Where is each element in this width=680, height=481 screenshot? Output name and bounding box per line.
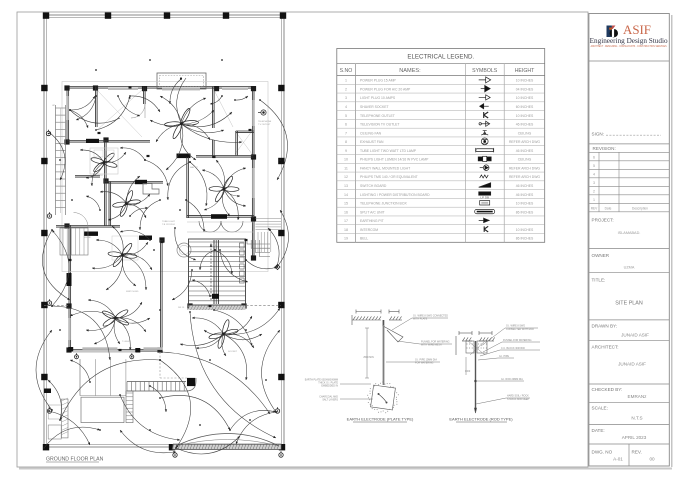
svg-text:PHILIPS LIGHT LUMEN 14/16 W PV: PHILIPS LIGHT LUMEN 14/16 W PVC LAMP bbox=[360, 158, 429, 162]
node bbox=[249, 419, 251, 421]
svg-text:ELECTRICAL LEGEND.: ELECTRICAL LEGEND. bbox=[407, 54, 474, 61]
interior wall v6 bbox=[104, 141, 106, 227]
legend table frame bbox=[337, 49, 545, 243]
svg-text:SHAVER SOCKET: SHAVER SOCKET bbox=[360, 105, 389, 109]
switch bbox=[147, 155, 150, 157]
node bbox=[269, 229, 271, 231]
interior wall v9 right-mid bbox=[186, 157, 188, 218]
svg-text:SOCKET: SOCKET bbox=[228, 351, 238, 353]
svg-text:Engineering Design Studio: Engineering Design Studio bbox=[590, 36, 668, 45]
svg-text:LIGHT PLUG 10 AMPS: LIGHT PLUG 10 AMPS bbox=[360, 96, 396, 100]
wire bbox=[220, 250, 248, 282]
wire bbox=[36, 330, 52, 410]
wire bbox=[177, 78, 186, 124]
terrace steps top-right bbox=[247, 240, 270, 244]
svg-text:86 INCHES: 86 INCHES bbox=[516, 210, 534, 214]
ceiling fan F2 bbox=[85, 144, 122, 181]
wire bbox=[160, 96, 182, 124]
hatched pillar strip bbox=[62, 399, 69, 438]
revision table bbox=[589, 160, 669, 162]
wire bbox=[86, 318, 116, 330]
svg-text:10 INCHES: 10 INCHES bbox=[516, 96, 534, 100]
svg-text:G.I. PIPE: G.I. PIPE bbox=[499, 355, 509, 358]
wire bbox=[176, 436, 240, 454]
ceiling fan F6 bbox=[206, 171, 243, 208]
wire bbox=[182, 124, 211, 140]
node bbox=[199, 424, 201, 426]
wire bbox=[200, 250, 215, 270]
wire bbox=[104, 152, 126, 163]
wire bbox=[235, 96, 248, 100]
legend header row bbox=[337, 75, 545, 77]
svg-text:SWITCH BOARD: SWITCH BOARD bbox=[360, 184, 387, 188]
house left wall upper bbox=[66, 87, 68, 144]
external stair left bbox=[55, 105, 57, 215]
wire bbox=[162, 352, 270, 414]
wire bbox=[224, 334, 255, 348]
earthing detail rod type bbox=[456, 331, 495, 413]
wire bbox=[116, 318, 151, 323]
wire bbox=[70, 96, 95, 110]
svg-text:ASIF: ASIF bbox=[623, 22, 651, 37]
wire bbox=[60, 360, 160, 420]
node bbox=[153, 249, 155, 251]
svg-text:9: 9 bbox=[345, 149, 347, 153]
svg-text:EMRANz: EMRANz bbox=[628, 394, 648, 399]
wire bbox=[88, 300, 116, 318]
node bbox=[265, 379, 267, 381]
wire bbox=[196, 334, 224, 348]
wire bbox=[204, 330, 224, 335]
wire bbox=[236, 412, 276, 444]
wire bbox=[260, 100, 288, 180]
svg-text:46 INCHES: 46 INCHES bbox=[516, 184, 534, 188]
svg-text:TELEPHONE JUNCTION BOX: TELEPHONE JUNCTION BOX bbox=[360, 202, 407, 206]
wire bbox=[262, 330, 280, 412]
svg-text:REFER ARCH DWG: REFER ARCH DWG bbox=[509, 166, 540, 170]
bottom-left column bbox=[44, 389, 51, 394]
svg-text:00: 00 bbox=[649, 457, 655, 462]
svg-text:T.LIGHT: T.LIGHT bbox=[122, 341, 131, 343]
stair arrow bbox=[210, 245, 212, 300]
garden light bbox=[130, 355, 134, 359]
svg-text:FOR WATERING: FOR WATERING bbox=[415, 362, 433, 365]
svg-text:SIGN:: SIGN: bbox=[592, 131, 605, 136]
wire bbox=[94, 318, 116, 344]
interior wall h2a closet bbox=[236, 130, 254, 132]
svg-text:EMBEDDED IN: EMBEDDED IN bbox=[321, 385, 338, 388]
wire bbox=[70, 110, 120, 123]
roof overhang outline bbox=[62, 82, 268, 272]
wire bbox=[150, 120, 182, 125]
wire bbox=[202, 170, 224, 189]
svg-text:3: 3 bbox=[345, 96, 347, 100]
node bbox=[179, 209, 181, 211]
vertical ladder stair bbox=[126, 391, 133, 423]
ceiling fan F3 bbox=[111, 188, 142, 218]
wire bbox=[277, 210, 289, 267]
door D3 bbox=[135, 180, 147, 184]
svg-text:12: 12 bbox=[344, 175, 348, 179]
wire bbox=[118, 96, 140, 116]
wire bbox=[222, 189, 230, 216]
wire bbox=[122, 255, 136, 286]
ceiling fan F1 bbox=[162, 104, 201, 143]
garden light bbox=[279, 453, 283, 457]
svg-text:4: 4 bbox=[345, 105, 347, 109]
svg-text:OWNER: OWNER bbox=[592, 253, 610, 258]
porch bbox=[157, 73, 206, 89]
wire bbox=[222, 334, 226, 356]
wire bbox=[182, 110, 215, 124]
wire bbox=[70, 360, 90, 382]
wire bbox=[114, 318, 120, 344]
svg-text:04 INCHES: 04 INCHES bbox=[516, 87, 534, 91]
wall columns house bbox=[64, 85, 69, 90]
interior wall h1 bbox=[67, 140, 150, 142]
svg-text:CEILING FAN: CEILING FAN bbox=[360, 131, 382, 135]
wire bbox=[224, 316, 253, 334]
svg-text:6: 6 bbox=[345, 123, 347, 127]
svg-text:N.T.S: N.T.S bbox=[631, 416, 642, 421]
drive curve bbox=[186, 378, 196, 391]
wire bbox=[130, 208, 148, 216]
wire bbox=[92, 255, 123, 268]
wire bbox=[268, 228, 279, 266]
wire bbox=[50, 133, 65, 180]
interior wall v2 bbox=[143, 87, 145, 105]
svg-text:19: 19 bbox=[344, 237, 348, 241]
wire bbox=[192, 280, 210, 296]
gate arc bbox=[176, 434, 279, 447]
svg-text:13: 13 bbox=[344, 184, 348, 188]
drive col bbox=[187, 378, 195, 386]
node bbox=[71, 199, 73, 201]
wire bbox=[100, 192, 127, 204]
svg-text:EARTH ELECTRODE (ROD TYPE): EARTH ELECTRODE (ROD TYPE) bbox=[449, 417, 513, 422]
svg-text:ARCHITECT . DESIGNING . CONSUL: ARCHITECT . DESIGNING . CONSULTANTS . CO… bbox=[591, 45, 667, 48]
svg-text:UZMA: UZMA bbox=[624, 266, 635, 270]
svg-text:S.NO: S.NO bbox=[340, 68, 353, 74]
veranda plank lines bbox=[79, 359, 81, 396]
interior wall v4 bbox=[235, 131, 237, 156]
gate hatched wall bbox=[172, 444, 281, 449]
svg-text:46 INCHES: 46 INCHES bbox=[516, 193, 534, 197]
svg-text:DATE:: DATE: bbox=[592, 428, 605, 433]
svg-text:SALT LAYERS: SALT LAYERS bbox=[322, 399, 338, 402]
svg-text:10 INCHES: 10 INCHES bbox=[516, 114, 534, 118]
bottom wall shadow bbox=[73, 351, 135, 353]
wire bbox=[186, 200, 204, 232]
svg-text:TELEPHONE: TELEPHONE bbox=[258, 121, 272, 123]
svg-text:86 INCHES: 86 INCHES bbox=[516, 237, 534, 241]
wire bbox=[172, 270, 192, 300]
svg-text:46 INCHES: 46 INCHES bbox=[516, 149, 534, 153]
svg-text:2: 2 bbox=[593, 190, 595, 194]
wire bbox=[190, 312, 276, 438]
dashed court continuation bbox=[159, 352, 161, 378]
interior wall h5 bbox=[56, 225, 120, 227]
ceiling fan F4 bbox=[104, 236, 141, 273]
svg-text:GROUND FLOOR PLAN: GROUND FLOOR PLAN bbox=[46, 457, 104, 463]
wire bbox=[190, 162, 207, 206]
wire bbox=[204, 189, 224, 210]
legend rows bbox=[337, 83, 545, 85]
main staircase bbox=[189, 239, 246, 305]
svg-text:1: 1 bbox=[593, 198, 595, 202]
svg-text:4: 4 bbox=[593, 173, 595, 177]
svg-text:T.V OUTLET: T.V OUTLET bbox=[258, 124, 271, 126]
wire bbox=[160, 395, 230, 430]
boundary columns bbox=[43, 12, 49, 18]
svg-text:TITLE:: TITLE: bbox=[592, 277, 606, 282]
wire bbox=[120, 430, 174, 453]
interior wall v3 bbox=[212, 87, 214, 129]
logo divider bbox=[589, 60, 669, 62]
wire bbox=[150, 386, 166, 412]
svg-text:STRATA 3000 DEEP: STRATA 3000 DEEP bbox=[507, 398, 530, 401]
svg-text:TUBE LIGHT TWO WATT LTD LAMP: TUBE LIGHT TWO WATT LTD LAMP bbox=[360, 149, 417, 153]
garden light bbox=[46, 131, 50, 135]
svg-text:CONNECTED WITH ROD: CONNECTED WITH ROD bbox=[506, 328, 534, 331]
svg-text:17: 17 bbox=[344, 219, 348, 223]
wire bbox=[182, 98, 207, 124]
void cross top-left room bbox=[97, 90, 142, 137]
svg-text:C.C. BLOCK 300X300: C.C. BLOCK 300X300 bbox=[501, 347, 525, 350]
earthing detail plate type bbox=[352, 310, 403, 410]
wire bbox=[112, 226, 123, 255]
sheet border bbox=[17, 12, 588, 467]
legend columns bbox=[354, 64, 356, 243]
svg-text:6: 6 bbox=[593, 156, 595, 160]
node bbox=[59, 159, 61, 161]
svg-text:15: 15 bbox=[344, 202, 348, 206]
svg-text:EARTHING PIT: EARTHING PIT bbox=[360, 219, 384, 223]
svg-text:FANCY WALL MOUNTED LIGHT: FANCY WALL MOUNTED LIGHT bbox=[360, 166, 410, 170]
node bbox=[221, 59, 223, 61]
svg-text:TELEVISION TV OUTLET: TELEVISION TV OUTLET bbox=[360, 123, 400, 127]
wire bbox=[182, 124, 243, 142]
svg-text:CHECKED BY:: CHECKED BY: bbox=[592, 387, 623, 392]
svg-text:TELEPHONE OUTLET: TELEPHONE OUTLET bbox=[360, 114, 395, 118]
wire bbox=[160, 360, 191, 448]
wire bbox=[224, 168, 246, 189]
garden light bbox=[173, 453, 177, 457]
node bbox=[95, 69, 97, 71]
svg-text:DN 15: DN 15 bbox=[178, 307, 185, 309]
wire bbox=[70, 110, 88, 128]
wire bbox=[127, 194, 151, 204]
wire bbox=[175, 228, 196, 260]
svg-text:SWITCH BD: SWITCH BD bbox=[126, 291, 139, 293]
black door bottom-left bbox=[84, 232, 98, 236]
wire bbox=[92, 163, 104, 187]
svg-text:DWG. NO: DWG. NO bbox=[592, 449, 613, 454]
wire bbox=[180, 124, 196, 160]
interior wall h4 bbox=[105, 181, 164, 183]
wire bbox=[246, 260, 277, 269]
black door mid bbox=[139, 236, 152, 240]
interior wall h3 bbox=[75, 175, 100, 177]
wire bbox=[224, 334, 247, 380]
svg-text:16: 16 bbox=[344, 210, 348, 214]
svg-text:2500 MIN: 2500 MIN bbox=[363, 356, 374, 359]
door D1 bbox=[86, 139, 99, 143]
svg-text:A-01: A-01 bbox=[613, 457, 623, 462]
stair lower flight bbox=[60, 228, 88, 255]
svg-text:FUNNEL FOR WATERING: FUNNEL FOR WATERING bbox=[503, 339, 532, 342]
svg-text:POWER PLUG 15 AMP: POWER PLUG 15 AMP bbox=[360, 79, 397, 83]
wire bbox=[140, 200, 160, 230]
wire bbox=[230, 410, 276, 430]
wire bbox=[49, 411, 90, 445]
garden light bbox=[275, 409, 279, 413]
wire bbox=[96, 96, 130, 130]
node bbox=[159, 309, 161, 311]
stair railing blocks bbox=[240, 243, 245, 248]
svg-text:Description: Description bbox=[632, 207, 648, 211]
switch bbox=[209, 305, 212, 307]
svg-text:46 INCHES: 46 INCHES bbox=[516, 123, 534, 127]
svg-text:ARCHITECT:: ARCHITECT: bbox=[592, 344, 619, 349]
legend symbols bbox=[475, 77, 495, 232]
wire bbox=[80, 150, 104, 163]
wire bbox=[116, 318, 147, 332]
hall corridor lines bbox=[187, 221, 254, 223]
svg-text:10 INCHES: 10 INCHES bbox=[516, 79, 534, 83]
house top wall bbox=[67, 86, 254, 88]
svg-text:2: 2 bbox=[345, 87, 347, 91]
svg-text:B.BOX: B.BOX bbox=[96, 175, 103, 177]
wire bbox=[210, 96, 222, 104]
corridor door arcs bbox=[199, 221, 221, 232]
wire bbox=[86, 196, 100, 210]
node bbox=[279, 159, 281, 161]
node bbox=[59, 329, 61, 331]
plot boundary wall bbox=[44, 15, 284, 447]
wire bbox=[44, 427, 100, 448]
wire bbox=[170, 79, 181, 104]
svg-text:CEILING: CEILING bbox=[518, 158, 532, 162]
wire bbox=[224, 189, 246, 206]
wire bbox=[127, 204, 147, 219]
svg-text:UP 16: UP 16 bbox=[210, 245, 217, 247]
void cross right room bbox=[235, 131, 252, 154]
wire bbox=[182, 112, 233, 127]
wire bbox=[166, 124, 183, 170]
svg-text:SCALE:: SCALE: bbox=[592, 406, 608, 411]
wire bbox=[123, 242, 149, 255]
stair bottom door block bbox=[212, 294, 219, 299]
stair entry column circle bbox=[177, 243, 191, 257]
svg-text:3: 3 bbox=[593, 181, 595, 185]
svg-text:NAMES:: NAMES: bbox=[399, 68, 421, 74]
door left wall bbox=[67, 273, 72, 286]
svg-text:REFER ARCH DWG: REFER ARCH DWG bbox=[509, 140, 540, 144]
node bbox=[149, 429, 151, 431]
door D4 bbox=[211, 214, 227, 219]
switch bbox=[249, 129, 252, 131]
svg-text:EARTH ELECTRODE (PLATE TYPE): EARTH ELECTRODE (PLATE TYPE) bbox=[347, 417, 414, 422]
svg-text:SW BD: SW BD bbox=[84, 237, 92, 239]
interior wall h bottom bbox=[69, 349, 162, 351]
switch bbox=[98, 132, 101, 134]
svg-text:SPLIT A/C UNIT: SPLIT A/C UNIT bbox=[360, 210, 385, 214]
node bbox=[99, 429, 101, 431]
exhaust fan bbox=[258, 110, 266, 115]
svg-text:LIGHTING / POWER DISTRIBUTION: LIGHTING / POWER DISTRIBUTION BOARD bbox=[360, 193, 430, 197]
svg-text:14: 14 bbox=[344, 193, 348, 197]
garden light bbox=[47, 301, 51, 305]
wire bbox=[224, 189, 240, 196]
legend title bbox=[337, 63, 545, 65]
svg-text:LP DB: LP DB bbox=[480, 196, 489, 200]
svg-text:10 INCHES: 10 INCHES bbox=[516, 202, 534, 206]
wire bbox=[224, 308, 281, 334]
wire bbox=[116, 302, 143, 318]
wire bbox=[192, 318, 224, 334]
wire bbox=[52, 306, 110, 360]
wire bbox=[123, 255, 153, 270]
node bbox=[245, 329, 247, 331]
switch bbox=[213, 156, 216, 158]
svg-text:SYMBOLS: SYMBOLS bbox=[472, 68, 498, 74]
svg-text:HEIGHT: HEIGHT bbox=[515, 68, 535, 74]
svg-text:WITH PLATE: WITH PLATE bbox=[413, 318, 428, 321]
svg-text:5: 5 bbox=[593, 164, 595, 168]
title block frame bbox=[589, 14, 669, 467]
switch bbox=[245, 239, 248, 241]
pantry niche bbox=[143, 184, 159, 195]
wire bbox=[224, 334, 263, 340]
interior wall h6 right-mid bbox=[187, 215, 254, 217]
right side path steps bbox=[256, 218, 282, 220]
wire bbox=[215, 250, 232, 274]
interior wall v1 bbox=[95, 87, 97, 128]
svg-text:POWER PLUG FOR A/C 20 AMP: POWER PLUG FOR A/C 20 AMP bbox=[360, 87, 411, 91]
svg-text:JUNAID ASIF: JUNAID ASIF bbox=[618, 362, 646, 367]
svg-text:18: 18 bbox=[344, 228, 348, 232]
wire bbox=[120, 148, 145, 160]
ceiling fan F7 bbox=[208, 319, 238, 349]
garden light bbox=[47, 409, 51, 413]
svg-text:PHILIPS TMS 140 / OR EQUIVALEN: PHILIPS TMS 140 / OR EQUIVALENT bbox=[360, 175, 418, 179]
svg-text:5: 5 bbox=[345, 114, 347, 118]
wire bbox=[52, 230, 69, 306]
wire bbox=[48, 380, 62, 420]
svg-text:FAN PT: FAN PT bbox=[190, 166, 198, 169]
svg-text:8: 8 bbox=[345, 140, 347, 144]
svg-text:10 INCHES: 10 INCHES bbox=[516, 228, 534, 232]
svg-text:CEILING: CEILING bbox=[518, 131, 532, 135]
svg-text:DRAWN BY:: DRAWN BY: bbox=[592, 323, 618, 328]
svg-text:7: 7 bbox=[345, 131, 347, 135]
logo mark bbox=[607, 26, 619, 38]
garden light bbox=[75, 355, 79, 359]
svg-text:10: 10 bbox=[344, 158, 348, 162]
house left wall lower bbox=[68, 225, 70, 351]
svg-text:3000: 3000 bbox=[465, 370, 471, 373]
wire bbox=[96, 240, 123, 255]
wire bbox=[156, 124, 182, 142]
svg-text:ISLAMABAD.: ISLAMABAD. bbox=[618, 231, 641, 235]
bottom wall door blocks bbox=[68, 347, 73, 352]
wire bbox=[145, 160, 168, 186]
wire bbox=[106, 255, 123, 290]
windows in bottom wall bbox=[82, 347, 117, 350]
svg-text:60 INCHES: 60 INCHES bbox=[516, 105, 534, 109]
svg-text:REFER ARCH DWG: REFER ARCH DWG bbox=[509, 175, 540, 179]
